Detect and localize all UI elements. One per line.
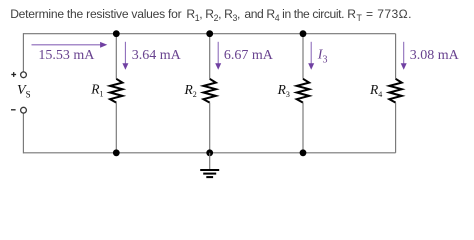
wire R3 branch upper <box>302 34 304 79</box>
node dot bottom R1 <box>113 149 120 156</box>
current arrow I1 (down) <box>124 42 126 65</box>
resistor R3 zigzag <box>297 79 309 103</box>
node dot top R3 <box>300 30 307 37</box>
minus sign <box>11 109 16 111</box>
resistor R2 zigzag <box>203 79 215 103</box>
wire left branch lower (Vs - lead) <box>22 114 24 154</box>
terminal + circle <box>21 72 27 78</box>
wire R4 branch lower <box>395 103 397 153</box>
node dot top R2 <box>206 30 213 37</box>
wire top rail <box>23 33 395 35</box>
svg-text:and R4 in the circuit.: and R4 in the circuit. <box>244 7 344 23</box>
svg-text:15.53 mA: 15.53 mA <box>38 48 95 63</box>
resistor R4 zigzag <box>389 79 401 103</box>
wire R2 branch lower <box>209 103 211 153</box>
current arrow I4 (down) <box>403 42 405 65</box>
terminal - circle <box>21 107 27 113</box>
svg-text:Determine the resistive values: Determine the resistive values for <box>10 7 182 21</box>
current arrow I3 (down) <box>310 42 312 65</box>
node dot top R1 <box>113 30 120 37</box>
svg-text:3.64 mA: 3.64 mA <box>132 48 182 63</box>
ground symbol <box>200 170 219 177</box>
wire R1 branch upper <box>115 34 117 79</box>
svg-text:R1, R2, R3,: R1, R2, R3, <box>186 7 240 23</box>
plus sign <box>11 72 16 77</box>
svg-text:6.67 mA: 6.67 mA <box>224 48 274 63</box>
wire R3 branch lower <box>302 103 304 153</box>
node dot bottom R2 (ground node) <box>206 149 213 156</box>
wire bottom rail <box>23 152 395 154</box>
resistor R1 zigzag <box>110 79 122 103</box>
wire R2 branch upper <box>209 34 211 79</box>
svg-text:3.08 mA: 3.08 mA <box>410 48 460 63</box>
wire R4 branch upper <box>395 34 397 79</box>
ground stub wire <box>209 153 211 170</box>
current arrow I2 (down) <box>217 42 219 65</box>
wire R1 branch lower <box>115 103 117 153</box>
node dot bottom R3 <box>300 149 307 156</box>
wire left branch upper (Vs + lead) <box>22 33 24 71</box>
current arrow IT 15.53 mA (horizontal) <box>32 44 102 46</box>
